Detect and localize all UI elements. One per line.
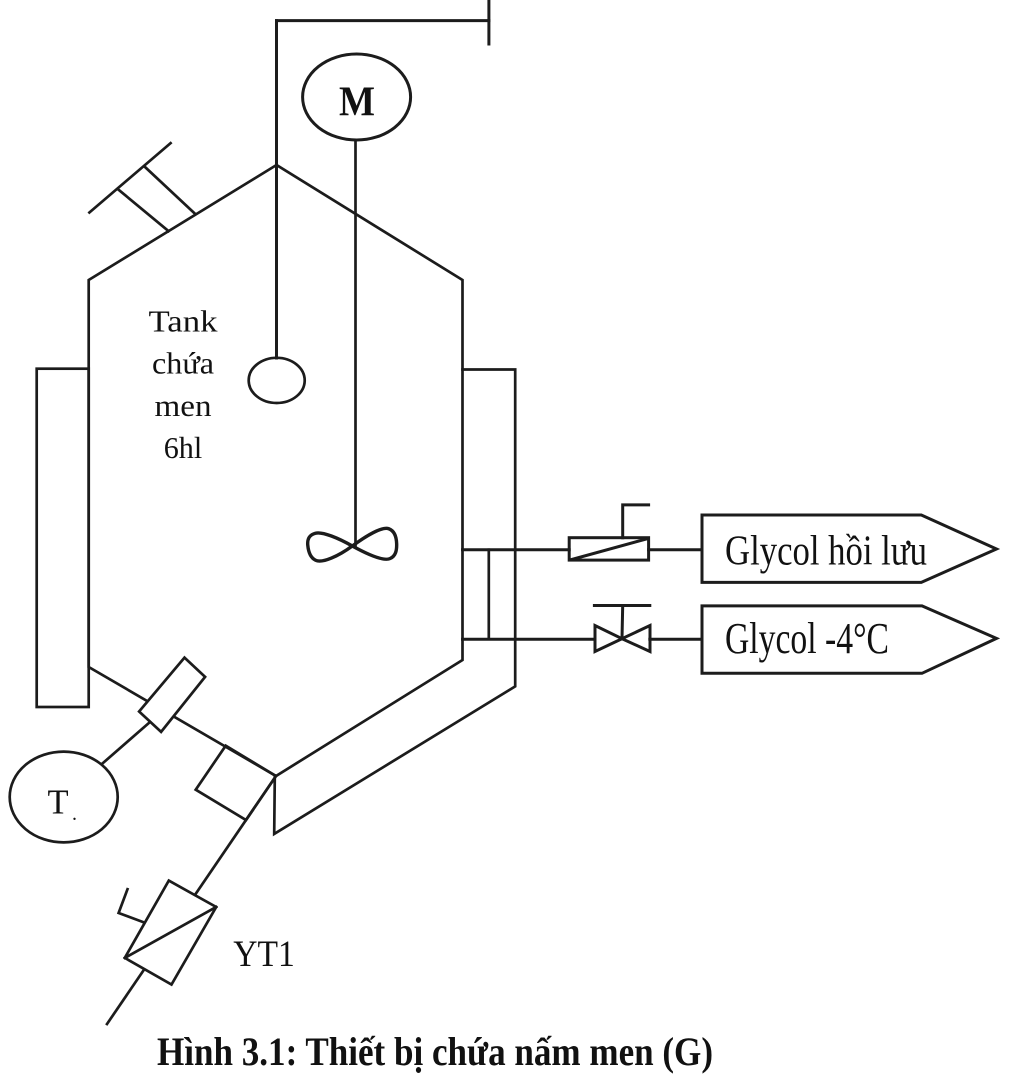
globe valve stem	[621, 606, 625, 639]
wire top vent line vertical from tank apex	[275, 21, 278, 358]
svg-text:Glycol hồi lưu: Glycol hồi lưu	[725, 528, 927, 574]
wire top right vertical end bar	[487, 0, 490, 44]
cooling jacket left rectangle	[37, 369, 89, 707]
agitator impeller bowtie	[307, 528, 398, 564]
valve YT1 actuator stub	[119, 889, 143, 922]
cooling jacket right outline	[274, 370, 515, 834]
svg-text:YT1: YT1	[233, 933, 294, 974]
agitator shaft	[354, 140, 357, 546]
temperature sensor T circle	[10, 752, 118, 843]
motor M circle	[303, 54, 411, 140]
globe valve bowtie on supply line	[595, 626, 650, 652]
svg-text:Hình 3.1: Thiết bị chứa nấm me: Hình 3.1: Thiết bị chứa nấm men (G)	[157, 1029, 713, 1074]
svg-text:chứa: chứa	[152, 346, 214, 381]
check valve actuator stub	[623, 505, 649, 538]
pipe glycol return after valve	[649, 548, 702, 551]
pipe glycol supply lower horizontal	[463, 638, 595, 641]
svg-text:T: T	[48, 784, 69, 822]
arrow label box glycol return	[702, 515, 997, 582]
arrow label box glycol supply	[702, 606, 997, 673]
valve YT1 body rectangle	[125, 881, 216, 985]
nozzle pipe top-left cross line 2	[118, 189, 169, 231]
wire temperature sensor branch	[103, 722, 150, 763]
pipe glycol return upper horizontal	[463, 548, 570, 551]
pipe glycol supply after valve	[650, 638, 702, 641]
svg-text:Glycol -4°C: Glycol -4°C	[725, 614, 889, 663]
svg-text:6hl: 6hl	[164, 430, 203, 465]
valve body on tank lower-left edge	[139, 658, 205, 732]
globe valve handle bar	[594, 604, 649, 607]
check valve internal diagonal	[571, 539, 647, 560]
nozzle pipe top-left cross line 1	[145, 167, 195, 214]
svg-text:men: men	[155, 388, 213, 423]
valve YT1 internal diagonal	[125, 907, 216, 958]
drain pipe line to YT1	[107, 776, 276, 1024]
tank vessel hexagon body	[89, 165, 463, 776]
wire top vent horizontal	[277, 19, 489, 22]
svg-text:.: .	[72, 803, 77, 825]
nozzle pipe top-left outer line	[89, 143, 170, 212]
svg-text:M: M	[339, 80, 375, 126]
svg-text:Tank: Tank	[149, 303, 219, 338]
bottom outlet square nozzle	[196, 746, 276, 820]
check valve body on return line	[569, 538, 648, 560]
wire jacket connector vertical	[487, 550, 490, 640]
level sensor circle hanging in tank	[249, 358, 305, 403]
